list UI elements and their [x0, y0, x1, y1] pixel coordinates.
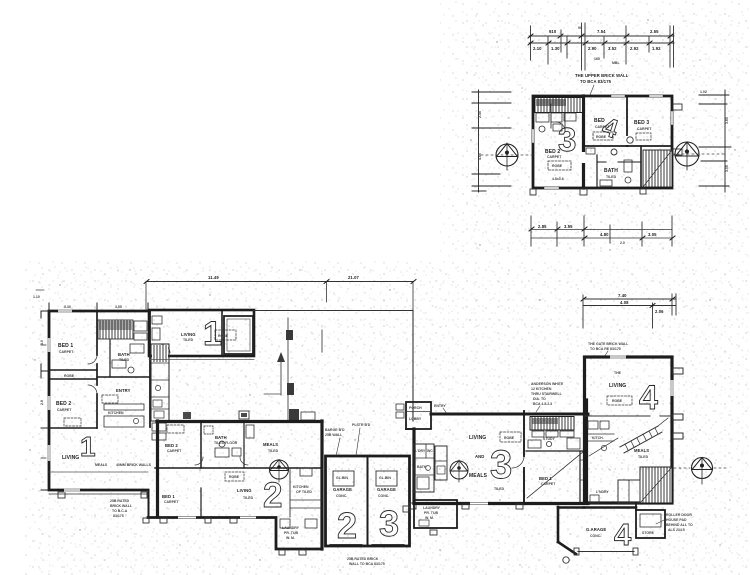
svg-text:40MM BRICK WALLS: 40MM BRICK WALLS	[116, 463, 152, 467]
interior wall living/bed1	[523, 411, 525, 456]
upper plan outer walls	[533, 96, 672, 188]
kitchen unit1	[104, 404, 144, 410]
svg-text:WC: WC	[427, 449, 433, 453]
svg-text:LIVING: LIVING	[609, 383, 626, 389]
svg-text:BED 1: BED 1	[58, 343, 73, 349]
svg-text:WALL TO BCA 83/175: WALL TO BCA 83/175	[349, 562, 385, 566]
svg-text:ROBE: ROBE	[64, 374, 75, 378]
kitchen unit4	[588, 433, 614, 435]
svg-text:W. M.: W. M.	[286, 536, 295, 540]
svg-text:3.52: 3.52	[608, 46, 617, 51]
right wall tick boxes upper plan	[673, 104, 682, 110]
svg-text:21.07: 21.07	[348, 275, 360, 280]
svg-text:ROBE: ROBE	[504, 436, 515, 440]
svg-text:TILED: TILED	[606, 175, 617, 179]
svg-text:2.55: 2.55	[650, 29, 659, 34]
svg-text:1.92: 1.92	[652, 46, 661, 51]
bath bottom wall	[97, 376, 150, 378]
svg-text:4.80: 4.80	[600, 232, 609, 237]
window unit4 top wall	[610, 355, 626, 359]
stairs unit3	[530, 417, 574, 431]
left dim column	[472, 90, 511, 192]
unit3 lobby block	[406, 402, 431, 429]
svg-text:GL.BIN: GL.BIN	[336, 476, 348, 480]
svg-text:TILED: TILED	[494, 487, 505, 491]
bed1 upper wall	[526, 450, 586, 452]
bottom dim lines	[531, 229, 672, 231]
svg-text:2.90: 2.90	[588, 46, 597, 51]
section circle A unit3	[435, 446, 447, 480]
svg-text:TO BCA 83/175: TO BCA 83/175	[580, 79, 612, 84]
stairs unit4	[640, 467, 672, 503]
window unit1 left wall 2	[47, 396, 51, 410]
building outline thin top	[254, 310, 413, 312]
svg-text:BED 3: BED 3	[634, 120, 649, 126]
svg-text:L'NDRY: L'NDRY	[596, 490, 609, 494]
svg-text:BEHIND ALL TO: BEHIND ALL TO	[666, 523, 693, 527]
ticks below unit2	[160, 518, 167, 523]
svg-text:LIVING: LIVING	[181, 332, 196, 337]
svg-text:2.9: 2.9	[40, 400, 44, 405]
svg-text:DIA. TO: DIA. TO	[533, 397, 546, 401]
svg-text:LOBBY: LOBBY	[409, 417, 422, 421]
svg-text:CONC.: CONC.	[378, 494, 389, 498]
garage divider	[367, 456, 369, 546]
svg-text:CARPET: CARPET	[164, 500, 179, 504]
unit4 top dims	[583, 298, 676, 300]
svg-text:OF TILED: OF TILED	[296, 490, 312, 494]
unit2 outer walls	[157, 420, 322, 423]
bath fixtures unit1	[112, 360, 126, 368]
window unit1 bottom wall	[64, 488, 80, 492]
svg-text:3: 3	[558, 121, 576, 158]
svg-text:TILED: TILED	[243, 496, 254, 500]
door gap party wall	[581, 152, 585, 163]
svg-text:TO BCA RE 83/175: TO BCA RE 83/175	[590, 347, 621, 351]
top dimension line row 2	[529, 42, 674, 44]
svg-text:AND: AND	[475, 454, 484, 459]
robe dashed bed4	[593, 132, 613, 140]
svg-text:LIVING: LIVING	[237, 488, 252, 493]
courtyard service line	[287, 318, 289, 421]
svg-text:GARAGE: GARAGE	[377, 487, 396, 492]
window unit1 top wall	[58, 309, 72, 313]
svg-text:GL.BIN: GL.BIN	[379, 476, 391, 480]
robe dashed unit2	[167, 425, 184, 433]
section circle A right	[675, 142, 699, 170]
window unit1 left wall	[47, 338, 51, 352]
svg-text:BATH: BATH	[215, 435, 227, 440]
section circle A left	[496, 143, 518, 170]
right dim column	[699, 90, 731, 192]
svg-text:THRU STAIRWELL: THRU STAIRWELL	[531, 392, 563, 396]
svg-text:4.60: 4.60	[478, 153, 482, 160]
svg-text:MEALS: MEALS	[634, 448, 649, 453]
landing clutter	[627, 137, 633, 143]
linen hatch top	[98, 320, 133, 339]
window unit2 bottom wall 2	[240, 515, 256, 519]
svg-text:BCA 4.8.2.3: BCA 4.8.2.3	[533, 402, 552, 406]
svg-text:TILED: TILED	[638, 455, 649, 459]
svg-text:2.92: 2.92	[630, 46, 639, 51]
svg-text:CONC.: CONC.	[336, 494, 347, 498]
svg-text:2.0: 2.0	[620, 241, 625, 245]
bed1 diagonal	[527, 452, 583, 498]
svg-text:1.10: 1.10	[33, 295, 40, 299]
svg-text:ROBE: ROBE	[218, 334, 229, 338]
svg-text:ALS 234.5: ALS 234.5	[668, 528, 685, 532]
unit 1 interior wall beds	[96, 311, 98, 355]
laundry block unit3	[414, 500, 457, 528]
ticks below unit3	[462, 504, 469, 509]
svg-text:ENTRY: ENTRY	[434, 404, 446, 408]
svg-text:KITCHEN: KITCHEN	[108, 411, 124, 415]
svg-text:25B RATED: 25B RATED	[110, 499, 130, 503]
wall below bedrooms	[584, 145, 673, 147]
garage4 walls	[584, 506, 636, 509]
downpipe line	[321, 330, 323, 352]
dimension ticks top	[531, 23, 674, 70]
ticks below upper plan	[530, 189, 536, 195]
svg-text:CARPET: CARPET	[59, 350, 74, 354]
svg-text:GARAGE: GARAGE	[333, 487, 352, 492]
svg-text:1: 1	[80, 431, 96, 462]
bin boxes	[333, 471, 354, 486]
svg-text:THE UPPER BRICK WALL: THE UPPER BRICK WALL	[575, 73, 629, 78]
svg-text:3.30: 3.30	[64, 305, 71, 309]
wall tick boxes right	[673, 368, 683, 374]
svg-text:BATH: BATH	[118, 352, 130, 357]
unit1 perimeter ticks	[41, 303, 148, 490]
diagonal stair unit4	[620, 426, 658, 447]
svg-text:LIVING: LIVING	[62, 455, 79, 461]
unit4 outer walls	[585, 357, 673, 503]
garage section left clutter	[152, 316, 162, 324]
svg-text:TO B.C.A: TO B.C.A	[112, 509, 128, 513]
svg-text:BED 2: BED 2	[56, 401, 71, 407]
stair cupboard row	[532, 431, 544, 437]
svg-text:3.55: 3.55	[564, 224, 573, 229]
svg-text:4: 4	[614, 517, 632, 552]
svg-text:MEALS: MEALS	[95, 463, 108, 467]
svg-text:12 KITCHEN: 12 KITCHEN	[531, 387, 552, 391]
closet boxes left unit	[536, 113, 549, 122]
svg-text:7.54: 7.54	[597, 29, 606, 34]
svg-text:PR. TUB: PR. TUB	[284, 531, 298, 535]
unit 1 outer walls	[49, 311, 149, 490]
section circle A unit2	[270, 460, 289, 479]
window unit1 left wall 3	[47, 445, 51, 461]
stair hatch left unit	[535, 98, 583, 113]
interior wall beds row	[155, 467, 322, 469]
party wall between units	[582, 96, 585, 188]
svg-text:THE GATE BRICK WALL: THE GATE BRICK WALL	[588, 342, 629, 346]
svg-text:W. M.: W. M.	[425, 516, 434, 520]
garage inner box	[224, 316, 253, 354]
bath fixtures	[600, 180, 612, 186]
stairs right	[643, 150, 672, 187]
scan speckle overlay lower plan	[25, 260, 750, 575]
svg-text:MBL: MBL	[612, 61, 620, 65]
svg-text:TILED: TILED	[183, 338, 194, 342]
top dimension line row 1	[529, 35, 674, 37]
svg-text:PORCH: PORCH	[409, 406, 422, 410]
garage 2-3 outer	[326, 456, 410, 546]
svg-text:4.08: 4.08	[620, 300, 629, 305]
svg-text:3.0: 3.0	[40, 340, 44, 345]
svg-text:165: 165	[594, 57, 600, 61]
scan speckle overlay upper plan	[440, 0, 750, 260]
svg-text:ROBE: ROBE	[596, 135, 607, 139]
wall below bed2	[49, 427, 97, 429]
laundry fixtures	[280, 519, 290, 528]
svg-text:910: 910	[549, 29, 557, 34]
svg-text:3.05: 3.05	[725, 165, 729, 172]
unit1 garage/living top section	[149, 310, 254, 356]
svg-text:2.45: 2.45	[478, 111, 482, 118]
kitchen bench unit2	[289, 470, 291, 517]
svg-text:CARPET: CARPET	[167, 449, 182, 453]
section dash line lower	[270, 468, 712, 470]
window unit4 right wall	[670, 380, 674, 396]
garage doors	[330, 544, 362, 546]
svg-text:ROBE: ROBE	[552, 164, 563, 168]
second line below garage section	[149, 359, 254, 361]
svg-text:STORE: STORE	[642, 531, 655, 535]
main top dimension line	[146, 281, 413, 283]
svg-text:HOUSE PAD: HOUSE PAD	[666, 518, 687, 522]
svg-text:THE: THE	[614, 371, 622, 375]
svg-text:MEALS: MEALS	[263, 442, 278, 447]
unit1 right wall	[149, 311, 151, 427]
svg-text:ENTRY: ENTRY	[116, 388, 131, 393]
svg-text:2.85: 2.85	[538, 224, 547, 229]
svg-text:2.10: 2.10	[533, 46, 542, 51]
svg-text:CARPET: CARPET	[541, 482, 556, 486]
svg-text:CARPET: CARPET	[637, 127, 652, 131]
utility column unit3	[414, 444, 434, 492]
wir boxes below column	[152, 423, 166, 431]
svg-text:CONC.: CONC.	[590, 534, 601, 538]
window unit2 bottom wall	[178, 515, 196, 519]
upper plan window marks	[533, 96, 672, 188]
svg-text:BED 2: BED 2	[165, 443, 178, 448]
svg-text:G.ARAGE: G.ARAGE	[586, 527, 606, 532]
svg-text:TILED: TILED	[268, 449, 279, 453]
svg-text:7.40: 7.40	[618, 293, 627, 298]
window unit3 bottom wall	[470, 501, 488, 505]
wall bed4/bed3	[626, 97, 628, 146]
svg-text:1.30: 1.30	[551, 46, 560, 51]
left utility column	[151, 344, 169, 421]
svg-text:PR. TUB: PR. TUB	[424, 511, 438, 515]
svg-text:1.02: 1.02	[700, 90, 707, 94]
robe corridor walls bed1/bed2	[49, 369, 97, 371]
svg-text:3.55: 3.55	[115, 305, 122, 309]
svg-text:3.60: 3.60	[725, 117, 729, 124]
store room	[636, 510, 665, 538]
svg-text:25B RATED BRICK: 25B RATED BRICK	[347, 557, 379, 561]
svg-text:MEALS: MEALS	[469, 473, 488, 479]
svg-text:BATH: BATH	[604, 168, 618, 174]
svg-text:2: 2	[263, 476, 282, 515]
bed1 robe wall	[579, 451, 581, 503]
svg-text:ANDERSON WHITE: ANDERSON WHITE	[531, 382, 564, 386]
svg-text:BED 1: BED 1	[162, 494, 175, 499]
svg-text:3: 3	[379, 503, 399, 544]
section circle A right	[692, 458, 713, 479]
garage4 door	[578, 551, 634, 553]
svg-text:STUDY: STUDY	[543, 437, 556, 441]
svg-text:2: 2	[337, 505, 357, 546]
courtyard arrow	[280, 360, 282, 395]
svg-text:KITCHEN: KITCHEN	[293, 485, 309, 489]
svg-text:LIVING: LIVING	[469, 435, 486, 441]
bath wall	[109, 340, 111, 377]
hws units by unit2 wall	[183, 412, 191, 419]
wc rooms unit4	[618, 480, 640, 503]
dim slashes	[528, 34, 673, 45]
inglenook clutter	[528, 440, 541, 448]
svg-text:11.49: 11.49	[208, 275, 219, 280]
svg-text:BARGE B'D: BARGE B'D	[325, 428, 345, 432]
svg-text:PLSTR B'D: PLSTR B'D	[352, 423, 371, 427]
tick circle bottom	[563, 557, 569, 563]
section dash line upper	[481, 154, 533, 156]
svg-text:TILED FLOOR: TILED FLOOR	[214, 441, 238, 445]
svg-text:L'DRY: L'DRY	[415, 449, 426, 453]
unit3/4 party wall	[585, 400, 588, 503]
svg-text:LAUNDRY: LAUNDRY	[423, 506, 441, 510]
bath fixtures unit2	[204, 426, 213, 434]
svg-text:BED 1: BED 1	[539, 476, 552, 481]
svg-text:4.8x3.6: 4.8x3.6	[552, 177, 564, 181]
svg-text:ROLLER DOOR: ROLLER DOOR	[666, 513, 692, 517]
svg-text:2.06: 2.06	[655, 309, 664, 314]
interior wall kitchen	[584, 415, 650, 417]
svg-text:BRICK WALL: BRICK WALL	[110, 504, 133, 508]
svg-text:4: 4	[639, 379, 658, 417]
svg-text:KITCH.: KITCH.	[592, 436, 604, 440]
svg-text:ROBE: ROBE	[612, 399, 623, 403]
svg-text:3.05: 3.05	[648, 232, 657, 237]
svg-text:90: 90	[578, 26, 582, 30]
svg-text:25B WALL: 25B WALL	[325, 433, 343, 437]
bath wall	[640, 146, 642, 188]
svg-text:ROBE: ROBE	[229, 475, 240, 479]
svg-text:TILED: TILED	[119, 358, 130, 362]
robe dashed	[548, 161, 571, 170]
svg-text:83/175: 83/175	[113, 514, 124, 518]
svg-text:3: 3	[490, 443, 512, 487]
unit3 outer walls	[431, 413, 588, 416]
svg-text:CARPET: CARPET	[57, 408, 72, 412]
door arc unit2	[195, 457, 203, 465]
